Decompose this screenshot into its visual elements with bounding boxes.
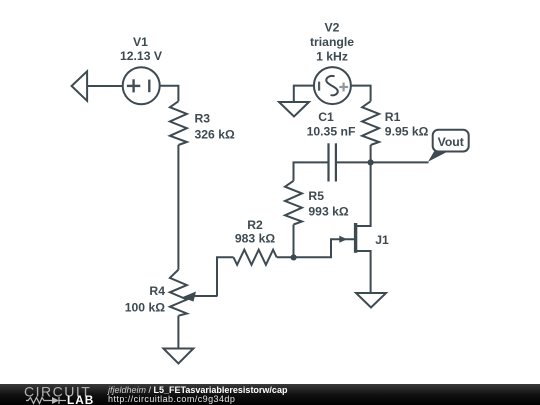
svg-text:V2: V2 [325,20,340,34]
voltage source V1 [123,67,160,104]
wire flag to V1 [87,85,123,87]
svg-text:R5: R5 [308,189,324,203]
svg-text:http://circuitlab.com/c9g34dp: http://circuitlab.com/c9g34dp [108,394,235,404]
wire R1 bottom to node [370,145,372,162]
svg-text:326 kΩ: 326 kΩ [195,128,235,142]
gate arrowhead [339,236,347,243]
node junction dot [368,159,374,165]
capacitor C1 [329,143,336,181]
svg-text:triangle: triangle [310,35,354,49]
net flag arrow (left of V1) [72,71,88,101]
ground (V2) [279,102,309,117]
wire R4 to ground [177,316,179,349]
logo resistor-diode symbol [26,397,66,404]
R4 wiper arrow [182,292,218,302]
svg-text:J1: J1 [375,233,389,247]
svg-text:R4: R4 [149,284,165,298]
svg-text:993 kΩ: 993 kΩ [308,204,348,218]
junction dot (R2/R5/gate) [291,254,297,260]
net flag Vout box [433,130,469,152]
wire R4 wiper riser to R2 [217,257,234,296]
svg-text:LAB: LAB [67,393,94,405]
voltage source V2 [314,67,351,104]
transistor J1 [356,162,371,293]
wire C1 right plate to node [336,161,371,163]
resistor R5 [285,181,302,225]
svg-text:Vout: Vout [438,135,464,149]
svg-text:C1: C1 [318,110,334,124]
wire V2 to R1 top corner [351,86,371,102]
footer bar [0,384,540,405]
svg-text:R3: R3 [195,111,211,125]
resistor R2 [234,250,277,265]
wire junction to gate [294,239,355,257]
wire R5 bottom to junction [293,225,295,258]
wire R5 top to C1 left plate [294,162,329,180]
svg-text:R1: R1 [385,110,401,124]
wire node to Vout [371,161,429,163]
net flag Vout tail [428,151,448,162]
svg-text:R2: R2 [247,218,263,232]
svg-text:12.13 V: 12.13 V [120,49,163,63]
wire R3 to R4 [177,145,179,270]
svg-text:10.35 nF: 10.35 nF [307,125,356,139]
wire V1 to R3 top corner [160,86,179,102]
ground (R4) [163,349,193,364]
resistor R1 [362,101,379,145]
svg-text:100 kΩ: 100 kΩ [125,301,165,315]
ground (J1 source) [356,293,386,308]
potentiometer R4 [170,270,187,316]
resistor R3 [170,101,187,145]
svg-text:9.95 kΩ: 9.95 kΩ [385,125,429,139]
svg-text:983 kΩ: 983 kΩ [235,231,275,245]
wire R2 to junction [277,256,294,258]
wire V2 to ground corner [294,86,314,102]
svg-text:1 kHz: 1 kHz [316,49,348,63]
svg-text:V1: V1 [133,35,148,49]
